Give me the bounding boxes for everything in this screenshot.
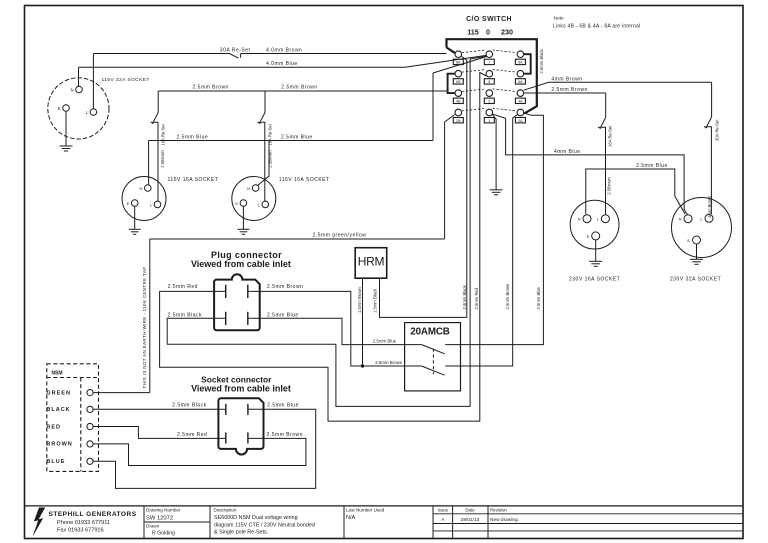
svg-text:Revision: Revision [490, 507, 507, 512]
svg-text:2.5Brown: 2.5Brown [606, 176, 611, 194]
svg-text:1: 1 [488, 119, 490, 123]
svg-text:16A Re-Set: 16A Re-Set [160, 123, 165, 145]
svg-text:SE6000D NSM Dual voltage wirin: SE6000D NSM Dual voltage wiring [214, 515, 298, 521]
svg-text:20AMCB: 20AMCB [410, 327, 449, 338]
svg-text:C/O SWITCH: C/O SWITCH [466, 16, 512, 23]
svg-text:2.5Brown: 2.5Brown [267, 149, 272, 167]
svg-text:30A Re-Set: 30A Re-Set [220, 47, 251, 53]
svg-text:R Golding: R Golding [152, 530, 175, 536]
svg-text:28/01/13: 28/01/13 [461, 517, 480, 523]
svg-text:5: 5 [488, 80, 490, 84]
svg-text:RED: RED [46, 424, 61, 430]
svg-text:E: E [587, 234, 590, 239]
svg-text:Phone 01933 677911: Phone 01933 677911 [57, 520, 110, 526]
svg-text:diagram 115V CTE / 230V Neutra: diagram 115V CTE / 230V Neutral bonded [214, 522, 315, 528]
svg-text:2.5mm Black: 2.5mm Black [462, 284, 467, 309]
svg-text:BROWN: BROWN [46, 442, 72, 448]
svg-text:115V 16A SOCKET: 115V 16A SOCKET [168, 177, 219, 183]
svg-text:HRM: HRM [358, 255, 385, 269]
svg-text:2.5mm Brown: 2.5mm Brown [267, 432, 303, 438]
svg-text:& Single pole Re-Sets.: & Single pole Re-Sets. [214, 530, 268, 536]
svg-text:1.5mm Black: 1.5mm Black [373, 288, 378, 313]
svg-text:2.5mm Red: 2.5mm Red [177, 432, 207, 438]
svg-text:Drawn: Drawn [146, 523, 160, 528]
svg-text:THIS IS NOT AN EARTH-WIRE - 11: THIS IS NOT AN EARTH-WIRE - 110V CENTRE … [142, 267, 147, 389]
svg-text:Fax 01933 677916: Fax 01933 677916 [57, 528, 104, 534]
svg-text:230: 230 [501, 28, 513, 37]
svg-text:4.0mm Brown: 4.0mm Brown [266, 47, 302, 53]
svg-text:2.5mm Brown: 2.5mm Brown [505, 283, 510, 310]
svg-text:115: 115 [467, 28, 479, 37]
svg-text:2.5mm Blue: 2.5mm Blue [536, 286, 541, 309]
svg-text:2B: 2B [456, 119, 461, 123]
svg-text:4mm Blue: 4mm Blue [554, 149, 581, 155]
svg-text:2.5mm green/yellow: 2.5mm green/yellow [313, 233, 367, 239]
svg-text:E: E [127, 201, 130, 206]
svg-text:2A: 2A [518, 119, 523, 123]
svg-text:115V 16A SOCKET: 115V 16A SOCKET [279, 177, 330, 183]
svg-text:16A Re-Set: 16A Re-Set [608, 125, 613, 147]
svg-text:2.5Brown: 2.5Brown [160, 149, 165, 167]
svg-text:Description: Description [214, 507, 237, 512]
svg-text:3: 3 [488, 100, 490, 104]
svg-text:2.5mm Red: 2.5mm Red [474, 287, 479, 309]
svg-text:Drawing Number: Drawing Number [146, 507, 181, 512]
svg-text:Viewed from cable inlet: Viewed from cable inlet [191, 259, 291, 269]
svg-text:BLUE: BLUE [46, 459, 65, 465]
svg-text:E: E [687, 238, 690, 243]
svg-text:6A: 6A [518, 80, 523, 84]
svg-text:GREEN: GREEN [46, 390, 71, 396]
svg-text:2.5mm Blue: 2.5mm Blue [373, 338, 397, 343]
svg-text:2.5mm Brown: 2.5mm Brown [281, 85, 317, 91]
svg-text:NSM: NSM [51, 370, 62, 376]
svg-text:2.5mm Blue: 2.5mm Blue [267, 403, 299, 409]
svg-text:2.5mm Black: 2.5mm Black [539, 48, 544, 73]
svg-text:2.5mm Brown: 2.5mm Brown [375, 360, 403, 365]
svg-text:2.5mm Red: 2.5mm Red [168, 284, 198, 290]
svg-text:SW 12072: SW 12072 [146, 515, 173, 521]
svg-text:8B: 8B [456, 61, 461, 65]
svg-text:Date: Date [465, 507, 475, 512]
svg-text:8A: 8A [518, 61, 523, 65]
svg-text:7: 7 [488, 61, 490, 65]
svg-text:2.5mm Brown: 2.5mm Brown [193, 85, 229, 91]
svg-text:115V 32A SOCKET: 115V 32A SOCKET [102, 77, 150, 83]
svg-text:4mm Brown: 4mm Brown [551, 76, 582, 82]
svg-text:230V 32A SOCKET: 230V 32A SOCKET [670, 277, 721, 283]
svg-text:Note: Note [554, 15, 564, 21]
svg-text:16A Re-Set: 16A Re-Set [267, 123, 272, 145]
svg-text:4A: 4A [518, 100, 523, 104]
svg-text:1.5mm Brown: 1.5mm Brown [357, 286, 362, 313]
svg-text:E: E [235, 201, 238, 206]
svg-text:N/A: N/A [346, 515, 356, 521]
svg-text:6B: 6B [456, 80, 461, 84]
svg-text:N: N [71, 88, 74, 93]
svg-text:2.5mm Blue: 2.5mm Blue [177, 134, 209, 140]
svg-text:2.5mm Blue: 2.5mm Blue [281, 134, 313, 140]
svg-text:N: N [679, 217, 682, 222]
svg-text:Last Number Used: Last Number Used [346, 507, 385, 512]
svg-text:E: E [58, 106, 61, 111]
svg-text:2.5mm Black: 2.5mm Black [172, 403, 206, 409]
svg-text:N: N [140, 186, 143, 191]
svg-text:4.0mm Blue: 4.0mm Blue [266, 61, 298, 67]
svg-text:2.5mm Brown: 2.5mm Brown [551, 87, 587, 93]
svg-text:Viewed from cable inlet: Viewed from cable inlet [191, 383, 291, 393]
svg-text:230V 16A SOCKET: 230V 16A SOCKET [569, 277, 620, 283]
svg-text:BLACK: BLACK [46, 407, 70, 413]
svg-text:4B: 4B [456, 100, 461, 104]
svg-text:30A Re-Set: 30A Re-Set [714, 119, 719, 141]
svg-text:2.5mm Brown: 2.5mm Brown [267, 284, 303, 290]
svg-text:N: N [578, 217, 581, 222]
svg-text:Links 4B - 6B & 4A - 8A are in: Links 4B - 6B & 4A - 8A are internal [553, 24, 640, 30]
svg-text:STEPHILL GENERATORS: STEPHILL GENERATORS [49, 511, 137, 518]
svg-text:N: N [247, 186, 250, 191]
svg-text:New drawing.: New drawing. [490, 517, 519, 523]
svg-text:2.5mm Blue: 2.5mm Blue [636, 163, 668, 169]
svg-text:Issue: Issue [438, 507, 449, 512]
svg-text:0: 0 [486, 28, 490, 37]
